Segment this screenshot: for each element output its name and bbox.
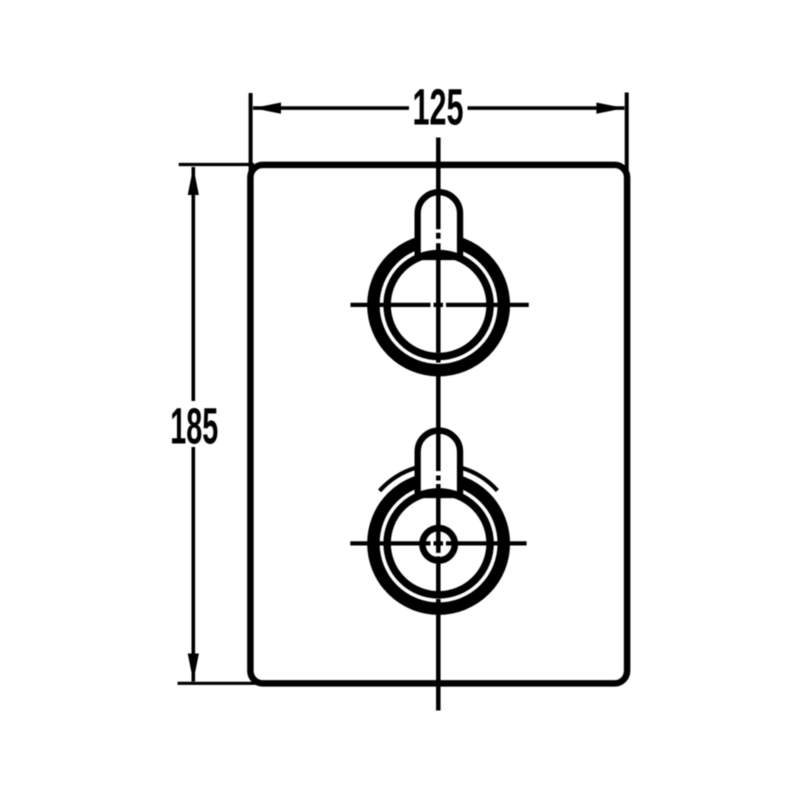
upper knob inner ring <box>387 254 490 357</box>
lower knob horizontal centerline <box>350 541 526 545</box>
arrowhead 125 right <box>596 103 624 114</box>
vertical centerline <box>436 138 441 711</box>
extension line right (125 dim) <box>625 93 629 187</box>
lower knob rotation arc right <box>462 468 498 491</box>
upper knob handle tab <box>418 192 460 257</box>
arrowhead 125 left <box>253 103 281 114</box>
dimension line 185 lower segment <box>192 447 196 682</box>
upper knob outer ring <box>373 240 503 370</box>
dimension line 125 left segment <box>253 106 409 110</box>
lower knob inner ring <box>387 492 490 595</box>
arrowhead 185 bottom <box>188 654 199 682</box>
lower knob handle tab <box>418 431 460 495</box>
svg-text:185: 185 <box>170 398 218 455</box>
faceplate outline <box>250 165 627 684</box>
arrowhead 185 top <box>188 167 199 195</box>
extension line bottom (185 dim) <box>178 682 259 685</box>
upper knob horizontal centerline <box>351 303 529 307</box>
lower knob center ring <box>422 528 454 560</box>
dimension line 185 upper segment <box>192 167 196 401</box>
lower knob rotation arc left <box>380 468 416 491</box>
svg-text:125: 125 <box>413 79 464 136</box>
dimension line 125 right segment <box>468 106 625 110</box>
lower knob outer ring <box>373 478 503 608</box>
extension line left (125 dim) <box>249 93 253 186</box>
extension line top (185 dim) <box>179 163 254 166</box>
